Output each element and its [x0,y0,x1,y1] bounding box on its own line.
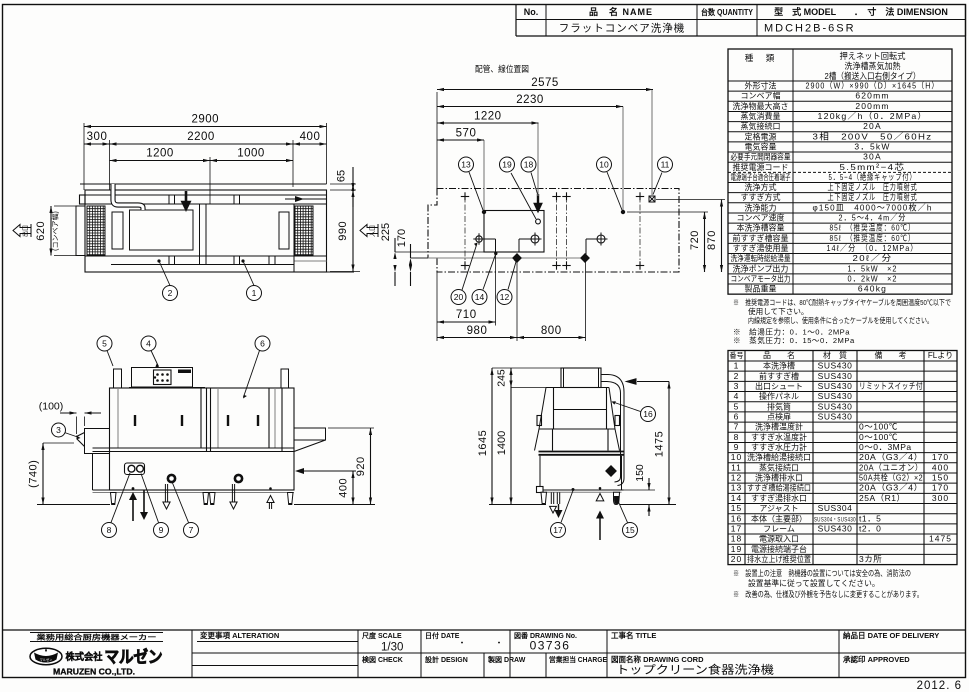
svg-text:30A: 30A [863,152,882,162]
svg-text:2012. 6: 2012. 6 [917,680,962,692]
symbol: power inlet 18 (black down arrow) [535,194,541,211]
svg-text:11: 11 [731,462,742,472]
svg-text:20A（G3／4）: 20A（G3／4） [859,452,923,462]
svg-text:SUS430: SUS430 [818,523,853,533]
svg-text:3: 3 [56,425,61,435]
svg-text:蒸気消費量: 蒸気消費量 [741,111,781,121]
balloons 20 14 12 with leaders [462,244,477,291]
svg-text:200mm: 200mm [855,101,889,111]
svg-text:台数 QUANTITY: 台数 QUANTITY [701,7,754,17]
svg-text:業務用総合厨房機器メーカー: 業務用総合厨房機器メーカー [35,633,156,642]
svg-text:備 考: 備 考 [875,350,907,360]
svg-text:操作パネル: 操作パネル [759,391,799,401]
plan view: right section edge [293,204,295,272]
end: centre arrows [599,487,602,490]
plan view: detergent inlet arrow (black down arrow) [183,191,190,209]
svg-text:120kg／h（0．2MPa）: 120kg／h（0．2MPa） [818,111,928,121]
parts list table [728,351,957,565]
svg-text:150: 150 [932,473,949,483]
svg-text:製図 DRAW: 製図 DRAW [487,655,526,664]
svg-text:800: 800 [541,325,562,337]
svg-text:16: 16 [643,409,653,419]
svg-text:0～100℃: 0～100℃ [859,432,898,442]
front: balloon 8 [111,473,130,523]
plan view: body outline [85,190,327,272]
svg-text:品 名 NAME: 品 名 NAME [589,6,653,17]
front: second gauge [235,475,242,482]
svg-text:SUS304・SUS430: SUS304・SUS430 [814,517,856,523]
svg-text:※ 給湯圧力：0．1～0．2MPa: ※ 給湯圧力：0．1～0．2MPa [733,327,850,337]
front: entrance table right [294,428,326,440]
svg-text:400: 400 [300,131,321,143]
svg-text:3カ所: 3カ所 [859,554,882,564]
svg-text:SUS430: SUS430 [818,391,853,401]
front: right support post [281,369,289,388]
svg-text:2230: 2230 [516,94,544,106]
left dims 225/170 [395,251,484,253]
svg-text:前すすぎ槽容量: 前すすぎ槽容量 [733,233,789,243]
svg-text:150: 150 [634,464,646,482]
plan view: centre dividers [199,204,201,265]
svg-text:225: 225 [380,223,392,241]
svg-text:3: 3 [734,381,740,391]
front: balloon 6 [244,351,260,398]
front: dim 920 [328,427,374,429]
svg-text:洗浄ポンプ出力: 洗浄ポンプ出力 [733,263,789,273]
front: dim 400 [352,471,354,505]
svg-text:フラットコンベア洗浄機: フラットコンベア洗浄機 [559,22,686,35]
svg-text:洗浄槽排水口: 洗浄槽排水口 [755,473,803,483]
svg-text:300: 300 [932,493,949,503]
svg-text:洗浄方式: 洗浄方式 [745,182,777,192]
svg-text:4: 4 [146,339,151,349]
svg-text:10: 10 [599,160,609,170]
svg-text:990: 990 [337,221,349,241]
svg-text:870: 870 [706,230,718,250]
svg-text:1475: 1475 [654,431,666,457]
svg-text:SUS430: SUS430 [818,371,853,381]
svg-text:1475: 1475 [929,534,952,544]
svg-text:SUS430: SUS430 [818,381,853,391]
svg-text:14ℓ／分 （0．12MPa）: 14ℓ／分 （0．12MPa） [827,243,919,253]
svg-text:すすぎ水温度計: すすぎ水温度計 [751,432,807,442]
front: dim (100) [76,417,78,435]
svg-text:すすぎ湯排水口: すすぎ湯排水口 [751,493,807,503]
svg-text:20: 20 [454,292,464,302]
svg-text:製品重量: 製品重量 [745,284,777,294]
svg-text:必要手元開閉器容量: 必要手元開閉器容量 [731,152,791,162]
svg-text:25A（R1）: 25A（R1） [859,493,906,503]
bottom dims 710/980/800 [436,272,438,341]
svg-text:980: 980 [467,325,488,337]
front: pressure gauge (7) [168,475,175,482]
svg-text:4: 4 [734,391,740,401]
svg-text:t2．0: t2．0 [859,523,881,533]
svg-text:No.: No. [524,7,539,17]
svg-text:上下固定ノズル 圧力噴射式: 上下固定ノズル 圧力噴射式 [828,192,918,202]
svg-text:2．5～4．4m／分: 2．5～4．4m／分 [839,213,907,223]
end: mid body [539,428,615,430]
front: floor lines [37,504,110,506]
balloon 2 [163,286,178,301]
end: exhaust duct [561,368,601,388]
svg-text:排水立上げ推奨位置: 排水立上げ推奨位置 [747,554,811,564]
svg-text:SUS430: SUS430 [818,361,853,371]
end: balloon 16 [613,402,641,412]
svg-text:03736: 03736 [530,639,571,653]
svg-text:620mm: 620mm [855,91,889,101]
svg-text:8: 8 [734,432,740,442]
svg-text:電源端子台適合圧着端子: 電源端子台適合圧着端子 [731,172,791,182]
plan view: right conveyor end piece [279,212,289,249]
svg-text:番号: 番号 [730,350,744,360]
piping outline (phantom) [428,189,679,273]
svg-text:3．5kW: 3．5kW [854,141,890,151]
svg-text:電気容量: 電気容量 [745,141,777,151]
svg-text:すすぎ水圧力計: すすぎ水圧力計 [751,442,807,452]
svg-text:16: 16 [731,513,742,523]
Maruzen logo [30,632,163,634]
end: balloon 15 [619,502,628,523]
dim 2900 (plan overall width) [83,123,85,190]
balloon 1 [247,286,262,301]
front: dim (740) [43,442,74,444]
svg-text:50A共栓（G2）×2: 50A共栓（G2）×2 [859,473,923,483]
svg-text:変更事項 ALTERATION: 変更事項 ALTERATION [200,630,279,640]
svg-text:本洗浄槽: 本洗浄槽 [763,361,795,371]
end: steam pipe [601,375,624,486]
svg-text:570: 570 [456,128,477,140]
svg-text:170: 170 [932,483,949,493]
top dims 2575/2230/1220/570 [436,92,438,189]
plan view: bottom band lines [85,255,327,257]
dims 300 / 2200 / 400 [109,140,111,190]
svg-text:2900: 2900 [191,114,219,126]
end: bottom-left small box [537,487,544,493]
end: dim 1475 [668,382,670,505]
svg-text:前すすぎ槽: 前すすぎ槽 [759,371,799,381]
svg-text:出口シュート: 出口シュート [755,381,803,391]
svg-text:株式会社: 株式会社 [66,651,103,663]
svg-text:1: 1 [734,361,740,371]
balloon 1 leader [243,261,254,286]
svg-text:2575: 2575 [531,77,559,89]
drain circles with cross [476,236,482,242]
svg-text:尺度 SCALE: 尺度 SCALE [361,631,402,640]
plan view: right crosshatch panel [295,206,313,256]
svg-text:6: 6 [734,411,740,421]
end: hood side tabs [537,416,542,426]
front: balloon 7 [173,483,189,523]
svg-text:すすぎ湯使用量: すすぎ湯使用量 [733,243,789,253]
drain diamonds [512,253,522,263]
svg-text:蒸気接続口: 蒸気接続口 [741,121,781,131]
svg-text:点検扉: 点検扉 [767,411,791,421]
symbol: hot water connection 13 [482,210,486,214]
front: exit chute [85,429,110,454]
svg-text:SUS430: SUS430 [818,411,853,421]
plan view: conveyor top rail line [80,183,327,185]
svg-text:MARUZEN CO.,LTD.: MARUZEN CO.,LTD. [53,667,135,677]
svg-text:0～100℃: 0～100℃ [859,422,898,432]
svg-text:・: ・ [457,638,466,648]
symbol: terminal 19 [536,219,541,224]
svg-text:2900（W）×990（D）×1645（H）: 2900（W）×990（D）×1645（H） [806,81,940,91]
end: caster leg (15) [614,492,620,504]
svg-text:洗浄槽蒸気加熱: 洗浄槽蒸気加熱 [845,61,901,71]
plan view: conveyor direction arrow (right side) [285,198,326,200]
svg-text:245: 245 [496,369,508,387]
front: body outline [110,388,295,490]
svg-text:2200: 2200 [187,131,215,143]
svg-text:フレーム: フレーム [763,524,795,533]
right dims 720/870 [627,211,708,213]
plan view: left tank opening [130,210,194,250]
svg-text:400: 400 [338,478,350,498]
svg-text:※ 蒸気圧力：0．15～0．2MPa: ※ 蒸気圧力：0．15～0．2MPa [733,335,855,345]
svg-text:図面名称 DRAWING CORD: 図面名称 DRAWING CORD [611,654,704,664]
svg-text:日付 DATE: 日付 DATE [425,631,460,640]
symbol: hot water connection 10 [621,210,625,214]
svg-text:納品日 DATE OF DELIVERY: 納品日 DATE OF DELIVERY [843,630,939,640]
svg-text:トップクリーン食器洗浄機: トップクリーン食器洗浄機 [616,663,775,677]
svg-text:13: 13 [731,483,742,493]
plus tick marks [461,196,469,198]
end: drain pipes [550,492,552,504]
end: legs [541,492,547,504]
svg-text:9: 9 [159,525,164,535]
specification table [728,49,952,294]
svg-text:18: 18 [524,160,534,170]
svg-text:使用して下さい。: 使用して下さい。 [748,306,809,316]
front: balloon 9 [141,474,159,523]
end: floor lines [489,504,546,506]
grey extension verticals to top dims [483,140,485,210]
svg-text:洗浄槽給湯接続口: 洗浄槽給湯接続口 [747,452,811,462]
svg-text:2槽（搬送入口右側タイプ）: 2槽（搬送入口右側タイプ） [825,71,921,81]
svg-text:6: 6 [260,339,265,349]
svg-text:1: 1 [252,288,257,298]
svg-text:本洗浄槽容量: 本洗浄槽容量 [737,223,785,233]
svg-text:MDCH2B-6SR: MDCH2B-6SR [764,23,856,35]
svg-text:検図 CHECK: 検図 CHECK [362,655,403,664]
svg-text:5: 5 [102,339,107,349]
svg-text:0～0．3MPa: 0～0．3MPa [859,442,912,452]
svg-text:1．5kW ×2: 1．5kW ×2 [848,263,898,273]
plan view: top band lines [85,194,327,196]
svg-text:押えネット回転式: 押えネット回転式 [840,51,906,61]
svg-text:設置基準に従って設置してください。: 設置基準に従って設置してください。 [748,578,880,588]
svg-text:170: 170 [932,452,949,462]
front: balloon 3 [65,433,80,438]
symbol: steam connection 11 [649,196,655,202]
drain connection steps [483,238,496,240]
end: dim 150 [624,489,656,491]
svg-text:材 質: 材 質 [823,350,847,360]
svg-text:14: 14 [475,292,485,302]
front: deck line [93,447,295,449]
front: door handles [134,415,136,426]
svg-text:出口: 出口 [22,225,30,237]
svg-text:65: 65 [336,170,348,182]
svg-text:85ℓ （推奨温度：60℃）: 85ℓ （推奨温度：60℃） [830,233,916,243]
svg-text:19: 19 [731,544,742,554]
plan view: left conveyor end piece [112,212,123,249]
svg-text:電源取入口: 電源取入口 [759,535,799,544]
svg-text:洗浄物最大高さ: 洗浄物最大高さ [733,101,789,111]
end: conveyor band [539,451,625,453]
svg-text:20ℓ／分: 20ℓ／分 [853,253,893,263]
svg-text:720: 720 [689,230,701,250]
svg-text:2: 2 [734,371,740,381]
svg-text:170: 170 [396,229,408,247]
svg-text:7: 7 [734,422,740,432]
svg-text:・: ・ [494,638,503,648]
plan view: exit chute pipe (top-left curved duct) [113,184,143,210]
plan view: small top-left stack [80,195,86,204]
svg-text:1645: 1645 [477,430,489,456]
svg-text:すすぎ槽給湯接続口: すすぎ槽給湯接続口 [747,483,811,493]
svg-text:920: 920 [355,456,367,476]
svg-text:洗浄槽温度計: 洗浄槽温度計 [755,422,803,432]
svg-text:マルゼン: マルゼン [105,647,163,667]
svg-text:型 式 MODEL ． 寸 法 DIMENSION: 型 式 MODEL ． 寸 法 DIMENSION [774,6,948,17]
svg-text:1220: 1220 [474,111,502,123]
end: hood [546,387,609,389]
svg-text:5．5−4（絶縁キャップ付）: 5．5−4（絶縁キャップ付） [829,172,917,182]
svg-text:20A（ユニオン）: 20A（ユニオン） [859,462,923,472]
svg-text:種 類: 種 類 [745,53,777,63]
svg-text:3相 200V 50／60Hz: 3相 200V 50／60Hz [813,131,933,141]
svg-text:SUS430: SUS430 [818,401,853,411]
grey drain line y=258 [411,257,586,259]
svg-text:9: 9 [734,442,740,452]
end: steam arrow [637,381,669,383]
svg-text:電源接続端子台: 電源接続端子台 [751,544,807,554]
balloon 2 leader [159,261,170,286]
front: lower-left pump section [93,454,110,491]
svg-text:20: 20 [731,554,742,564]
svg-text:本体（主要部）: 本体（主要部） [751,513,807,523]
svg-text:営業担当 CHARGE: 営業担当 CHARGE [549,655,607,664]
plan view: left crosshatch panel [87,206,105,256]
entrance arrow 入口 [360,224,378,237]
svg-text:300: 300 [87,131,108,143]
end: dims 245 / 1400 [511,387,546,389]
svg-text:設計 DESIGN: 設計 DESIGN [425,655,468,664]
svg-text:620: 620 [35,221,47,241]
svg-text:14: 14 [731,493,742,503]
svg-text:※ 改善の為、仕様及び外観を予告なしに変更することがあります: ※ 改善の為、仕様及び外観を予告なしに変更することがあります。 [733,589,923,599]
svg-text:推奨電源コード: 推奨電源コード [733,162,789,172]
svg-text:19: 19 [502,160,512,170]
dim 65 (right top) [330,183,356,185]
svg-text:洗浄能力: 洗浄能力 [745,202,777,212]
end: diamond symbol [605,465,617,477]
front: exhaust stack left [114,369,122,388]
svg-text:内線規定を参照し、使用条件に合ったケーブルを使用してください: 内線規定を参照し、使用条件に合ったケーブルを使用してください。 [748,315,933,325]
svg-text:φ150皿 4000～7000枚／h: φ150皿 4000～7000枚／h [813,202,933,212]
plan view: left end cap [76,206,85,256]
exit arrow 出口 [13,224,31,237]
svg-text:10: 10 [731,452,742,462]
centreline verticals [464,193,466,268]
svg-text:1000: 1000 [237,148,265,160]
front: steam inlet arrow right [304,470,356,472]
svg-text:排気筒: 排気筒 [767,401,791,411]
svg-text:20A（G3／4）: 20A（G3／4） [859,483,923,493]
svg-text:85ℓ （推奨温度：60℃）: 85ℓ （推奨温度：60℃） [830,223,916,233]
svg-text:外形寸法: 外形寸法 [745,81,777,91]
front: legs [111,493,117,505]
svg-text:品 名: 品 名 [763,350,795,360]
svg-text:※ 推奨電源コードは、80℃耐熱キャップタイヤケーブルを周囲: ※ 推奨電源コードは、80℃耐熱キャップタイヤケーブルを周囲温度50℃以下で [733,297,951,307]
svg-text:(コンベア幅): (コンベア幅) [51,211,60,251]
svg-text:FLより: FLより [928,351,953,360]
dim 620 conveyor width [54,205,76,207]
svg-text:15: 15 [731,503,742,513]
svg-text:1200: 1200 [146,148,174,160]
svg-text:リミットスイッチ付: リミットスイッチ付 [859,381,923,391]
svg-text:コンベアモータ出力: コンベアモータ出力 [731,273,791,283]
svg-text:12: 12 [731,473,742,483]
svg-text:2: 2 [168,288,173,298]
svg-text:すすぎ方式: すすぎ方式 [741,192,781,202]
end: balloon 17 [561,491,573,523]
svg-text:マルゼン: マルゼン [40,657,53,662]
front: control panel [132,368,193,388]
title block [3,629,966,631]
dims 1200 / 1000 [209,157,211,204]
svg-text:配管、線位置図: 配管、線位置図 [475,64,529,74]
svg-text:20A: 20A [863,121,882,131]
svg-text:工事名 TITLE: 工事名 TITLE [611,630,656,640]
svg-text:蒸気接続口: 蒸気接続口 [759,462,799,472]
wash tank sub-frame rect [484,211,544,253]
svg-text:※ 設置上の注意 熱機器の設置については安全の為、消防法の: ※ 設置上の注意 熱機器の設置については安全の為、消防法の [733,568,911,578]
front: balloon 5 [107,351,113,367]
svg-text:SUS304: SUS304 [818,503,853,513]
svg-text:1400: 1400 [496,431,508,455]
svg-text:11: 11 [661,160,670,170]
plan view: band ticks [168,256,170,265]
svg-text:洗浄運転時総給湯量: 洗浄運転時総給湯量 [731,253,791,263]
svg-text:(100): (100) [39,401,64,413]
svg-text:17: 17 [731,523,742,533]
svg-text:15: 15 [625,525,635,535]
header table (No. / NAME / QUANTITY / MODEL-DIMENSION) [515,5,517,37]
svg-text:400: 400 [932,462,949,472]
svg-text:5.5mm²−4芯: 5.5mm²−4芯 [840,162,906,172]
svg-text:8: 8 [107,525,112,535]
svg-text:640kg: 640kg [858,284,887,294]
svg-text:5: 5 [734,401,740,411]
svg-text:(740): (740) [28,460,40,488]
svg-text:コンベア速度: コンベア速度 [737,213,785,223]
svg-text:710: 710 [456,309,477,321]
svg-text:上下固定ノズル 圧力噴射式: 上下固定ノズル 圧力噴射式 [828,182,918,192]
svg-text:13: 13 [461,160,471,170]
svg-text:t1．5: t1．5 [859,513,881,523]
svg-text:1/30: 1/30 [381,642,403,654]
end: tank body [540,456,622,490]
front: door dividers [117,388,119,448]
svg-text:コンベア幅: コンベア幅 [741,91,781,101]
dim 990 (plan height) [330,271,360,273]
svg-text:17: 17 [553,525,563,535]
svg-text:承認印 APPROVED: 承認印 APPROVED [843,654,910,664]
svg-text:18: 18 [731,534,742,544]
